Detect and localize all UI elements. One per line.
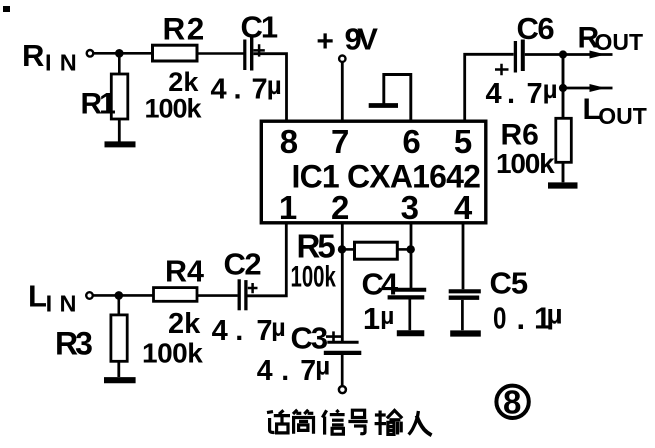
value label 1u C4 — [363, 301, 395, 336]
capacitor C1 — [245, 36, 265, 71]
node ROUT junction — [559, 50, 567, 58]
ground R3 — [104, 377, 136, 383]
caption char 4 hao — [348, 410, 367, 434]
capacitor C5 — [449, 291, 481, 330]
svg-text:4: 4 — [211, 74, 227, 106]
terminal LIN — [86, 292, 93, 299]
svg-text:.: . — [281, 355, 289, 387]
node R5 right junction — [407, 245, 415, 253]
svg-text:C2: C2 — [224, 247, 261, 282]
svg-text:µ: µ — [547, 298, 563, 329]
svg-text:4: 4 — [486, 78, 502, 110]
svg-text:OUT: OUT — [598, 103, 647, 129]
value label 4.7u C1 — [211, 70, 282, 106]
resistor R5 — [342, 242, 411, 259]
svg-text:OUT: OUT — [595, 29, 644, 55]
ground R1 — [105, 141, 136, 147]
caption char 6 ru — [409, 411, 432, 435]
svg-text:L: L — [28, 278, 47, 313]
wire pin5 to C6 — [465, 54, 514, 121]
wire C3 to mic terminal — [341, 355, 344, 386]
caption char 3 xin — [322, 410, 344, 435]
wire C1 to pin8 — [254, 54, 287, 121]
label +9V — [316, 22, 378, 59]
svg-text:R5: R5 — [297, 228, 336, 265]
scan noise top-left — [3, 6, 10, 12]
node LOUT label — [583, 93, 647, 129]
wire R4 to C2 — [197, 294, 238, 297]
svg-text:4: 4 — [212, 315, 228, 347]
wire RIN to R2 — [94, 52, 153, 55]
circled 8 — [496, 384, 528, 421]
svg-text:.: . — [517, 301, 526, 336]
value label 4.7u C6 — [486, 74, 558, 110]
node R5 left junction — [338, 245, 346, 253]
arrow ROUT — [590, 51, 606, 59]
wire LIN to R4 — [93, 294, 154, 297]
svg-text:N: N — [60, 50, 77, 76]
wire pin2 down to C3 — [341, 223, 344, 341]
resistor R3 — [111, 295, 127, 377]
resistor R6 — [556, 88, 572, 182]
value label 0.1u C5 — [493, 298, 563, 336]
wire pin4 down to C5 — [462, 223, 465, 289]
arrow LOUT — [563, 84, 613, 92]
node junction RIN/R1 — [115, 49, 124, 58]
svg-text:R4: R4 — [165, 255, 204, 289]
svg-text:N: N — [60, 291, 77, 317]
svg-text:100k: 100k — [145, 94, 203, 124]
value label 4.7u C3 — [257, 351, 331, 387]
svg-text:+: + — [316, 25, 334, 58]
svg-text:R: R — [22, 38, 44, 73]
svg-text:100k: 100k — [291, 261, 337, 294]
wire junction to LOUT — [562, 55, 565, 89]
polarity mark C3 — [326, 331, 341, 341]
node LIN label — [28, 278, 76, 316]
terminal mic input — [339, 386, 346, 393]
caption char 2 tong — [293, 410, 314, 434]
wire pin6 step — [384, 75, 411, 122]
node ROUT label — [578, 22, 644, 56]
svg-text:.: . — [507, 78, 515, 110]
resistor R1 — [111, 53, 128, 141]
svg-text:I: I — [45, 50, 52, 76]
svg-text:7: 7 — [331, 123, 349, 160]
svg-text:5: 5 — [454, 123, 472, 160]
svg-text:µ: µ — [267, 70, 282, 100]
svg-text:7: 7 — [300, 355, 316, 387]
node junction LIN/R3 — [115, 291, 124, 300]
svg-text:R2: R2 — [163, 11, 206, 47]
svg-text:R1: R1 — [81, 88, 116, 121]
ground C4 — [397, 330, 425, 336]
svg-text:1: 1 — [363, 301, 380, 336]
svg-text:100k: 100k — [496, 148, 555, 179]
capacitor C3 — [324, 342, 362, 353]
svg-text:IC1 CXA1642: IC1 CXA1642 — [292, 159, 481, 195]
svg-text:1: 1 — [279, 189, 297, 226]
svg-text:7: 7 — [527, 78, 543, 110]
svg-text:µ: µ — [315, 351, 330, 381]
svg-text:µ: µ — [543, 74, 558, 104]
svg-text:µ: µ — [380, 303, 394, 330]
capacitor C2 — [239, 279, 257, 310]
caption char 1 hua — [267, 410, 290, 433]
svg-text:R6: R6 — [501, 119, 539, 152]
svg-text:9V: 9V — [345, 22, 379, 57]
value label 4.7u C2 — [212, 314, 286, 347]
svg-text:.: . — [235, 315, 243, 347]
svg-text:7: 7 — [256, 315, 272, 347]
svg-text:C4: C4 — [362, 267, 399, 302]
ground C5 — [450, 330, 481, 336]
svg-text:I: I — [46, 291, 53, 317]
svg-text:8: 8 — [503, 384, 521, 421]
svg-text:4: 4 — [257, 355, 273, 387]
svg-text:2: 2 — [331, 189, 349, 226]
capacitor C4 — [388, 290, 427, 330]
ground R6 — [548, 182, 578, 188]
wire +9V to pin7 — [341, 62, 344, 121]
svg-text:C1: C1 — [241, 10, 278, 45]
wire C2 to pin1 — [248, 223, 287, 296]
wire pin3 down to C4 — [410, 223, 413, 288]
svg-text:R3: R3 — [55, 326, 92, 362]
resistor R2 — [153, 45, 198, 61]
svg-text:100k: 100k — [142, 338, 203, 369]
terminal RIN — [87, 50, 94, 57]
resistor R4 — [154, 288, 198, 302]
svg-text:4: 4 — [454, 189, 473, 226]
svg-text:.: . — [234, 74, 242, 106]
svg-text:C5: C5 — [490, 266, 528, 301]
node LOUT junction — [559, 84, 567, 92]
svg-text:8: 8 — [280, 123, 298, 160]
wire C6 to ROUT — [525, 53, 613, 56]
svg-text:3: 3 — [401, 189, 419, 226]
svg-text:2k: 2k — [168, 308, 201, 340]
svg-text:µ: µ — [271, 314, 285, 342]
ground pin6 — [369, 103, 398, 108]
svg-text:6: 6 — [402, 123, 420, 160]
capacitor C6 — [495, 40, 523, 76]
terminal +9V — [339, 56, 345, 62]
caption char 5 shu — [375, 410, 403, 435]
op-amp U1 IC box — [261, 121, 486, 223]
wire R2 to C1 — [197, 52, 244, 55]
node RIN label — [22, 38, 77, 76]
svg-text:2k: 2k — [168, 67, 199, 97]
svg-text:0: 0 — [493, 301, 506, 336]
svg-text:C6: C6 — [517, 11, 555, 46]
svg-text:7: 7 — [252, 74, 268, 106]
